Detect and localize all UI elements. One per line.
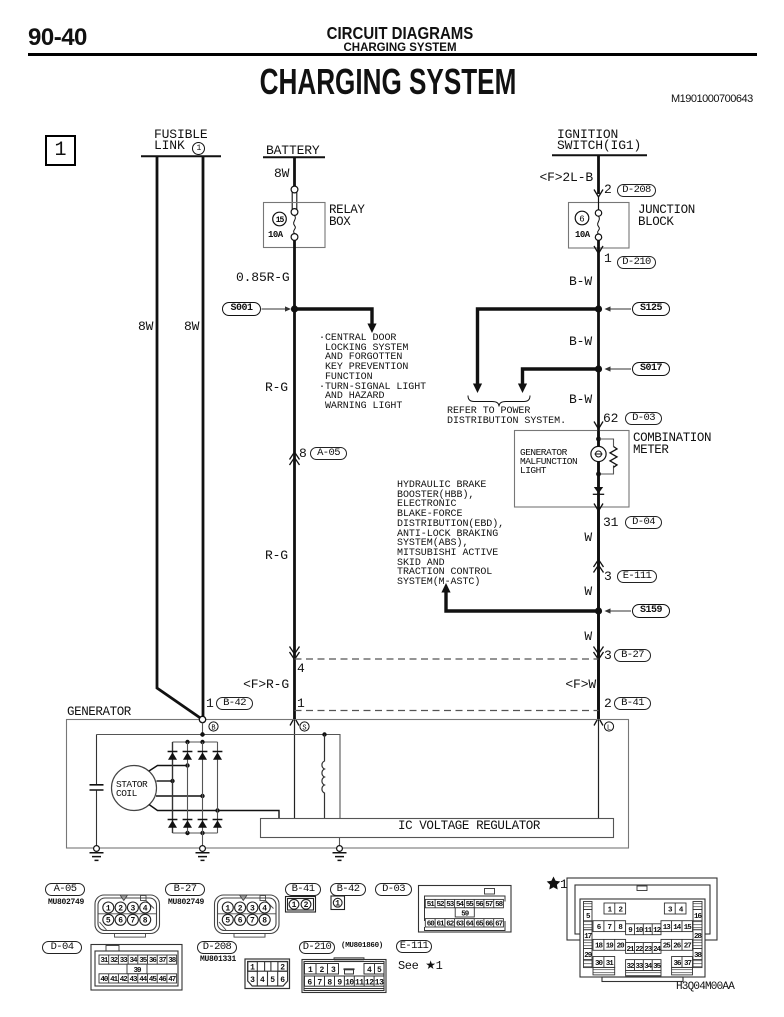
svg-text:4: 4 — [367, 966, 372, 975]
terminal arrow into generator pin1 — [290, 718, 299, 726]
generator malfunction lamp — [597, 430, 599, 447]
node S125 — [595, 305, 602, 312]
node field coil tap — [322, 732, 326, 736]
wire label (F)2L-B — [538, 171, 593, 184]
page header — [28, 26, 87, 50]
svg-text:6: 6 — [118, 917, 123, 926]
note hydraulic brake booster — [397, 481, 504, 588]
svg-text:3: 3 — [250, 976, 255, 985]
svg-text:4: 4 — [262, 904, 267, 913]
pin 8 A-05 — [299, 447, 307, 460]
terminal B circle — [199, 716, 205, 722]
break chevrons at E-111 — [594, 560, 604, 573]
dashed connector boundary upper — [295, 658, 599, 660]
pin 1 D-210 — [604, 252, 612, 265]
connector A-05 drawing — [95, 895, 160, 937]
wire label R-G 1 — [265, 381, 288, 394]
pin 1 generator — [297, 697, 305, 710]
rectifier column 1 — [172, 742, 174, 833]
capacitor — [96, 735, 98, 785]
wire battery 8W — [293, 157, 296, 186]
connector D-04 drawing — [91, 945, 182, 991]
resistor — [610, 447, 617, 468]
node S017 — [595, 365, 602, 372]
svg-text:12: 12 — [365, 978, 374, 987]
splice S125 — [632, 302, 670, 316]
IC voltage regulator box — [261, 819, 614, 838]
ignition switch underline — [552, 154, 647, 156]
wire L terminal to regulator — [598, 720, 600, 819]
svg-text:9: 9 — [337, 978, 342, 987]
svg-text:7: 7 — [608, 924, 612, 932]
resistor branch — [599, 439, 614, 474]
fusible link label — [154, 128, 208, 141]
field coil — [322, 735, 325, 819]
svg-text:6: 6 — [579, 214, 584, 224]
svg-text:13: 13 — [375, 978, 384, 987]
fusible link element at relay box — [291, 186, 298, 193]
svg-text:1: 1 — [250, 964, 255, 973]
node S001 — [291, 305, 298, 312]
svg-text:8: 8 — [143, 917, 148, 926]
battery label — [266, 144, 320, 157]
dashed connector boundary lower — [295, 710, 599, 712]
diode meter — [594, 487, 603, 494]
svg-text:7: 7 — [130, 917, 135, 926]
stator lead 2 — [157, 780, 173, 782]
junction block label — [638, 205, 695, 228]
wire label W 2 — [570, 585, 592, 598]
wire fusible-link right 8W — [202, 156, 205, 717]
pin 2 B-41 — [604, 697, 612, 710]
bottom row 2 connector refs — [42, 941, 82, 954]
branch S125 to power distribution arrow 1 — [478, 309, 599, 384]
generator label — [67, 707, 131, 719]
terminal letter B — [209, 722, 218, 731]
svg-text:6: 6 — [238, 917, 243, 926]
svg-text:L: L — [607, 725, 611, 733]
junction block box — [569, 203, 630, 249]
sheet number box 1 — [45, 135, 76, 166]
svg-text:1: 1 — [308, 966, 313, 975]
generator box — [67, 720, 629, 849]
break chevrons right at dashed line — [594, 647, 604, 660]
part number H3Q04M00AA — [676, 982, 734, 993]
svg-text:8: 8 — [262, 917, 267, 926]
svg-text:2: 2 — [238, 904, 243, 913]
connector B-42 drawing — [331, 896, 345, 910]
wire 0.85R-G battery to S001 — [293, 241, 296, 720]
splice S017 — [632, 362, 670, 376]
rectifier column 3 — [202, 742, 204, 833]
terminal letter S — [300, 722, 309, 731]
star1 pin grid — [584, 902, 703, 977]
svg-text:7: 7 — [317, 978, 322, 987]
arrow into junction block — [594, 190, 603, 198]
splice S001 — [222, 302, 261, 316]
wire labels 8W fusible — [138, 320, 153, 333]
svg-text:3: 3 — [250, 904, 255, 913]
svg-text:4: 4 — [143, 904, 148, 913]
wire label (F)R-G — [234, 678, 289, 691]
svg-text:47: 47 — [168, 976, 176, 984]
svg-text:3: 3 — [130, 904, 135, 913]
svg-text:17: 17 — [584, 933, 592, 941]
svg-text:8: 8 — [327, 978, 332, 987]
stator coil circle — [112, 766, 157, 811]
fuse value 10A relay — [268, 231, 283, 240]
svg-text:S: S — [302, 725, 306, 733]
pin 3 E-111 — [604, 570, 612, 583]
wire label (F)W — [541, 678, 596, 691]
svg-text:7: 7 — [250, 917, 255, 926]
stator lead 4 / neutral to regulator — [149, 805, 279, 819]
svg-text:10: 10 — [345, 978, 354, 987]
arrow into combination meter — [594, 422, 603, 430]
combination meter box — [515, 431, 630, 508]
circled 6 — [575, 211, 589, 225]
stator lead 1 — [149, 766, 188, 772]
terminal arrow into generator pin2 — [594, 718, 603, 726]
svg-text:6: 6 — [307, 978, 312, 987]
star1 connector housing — [567, 878, 717, 982]
node B bus — [200, 732, 204, 736]
combination meter label — [633, 433, 711, 456]
pin 1 B-42 — [206, 697, 214, 710]
rectifier column 2 — [187, 742, 189, 833]
wire label R-G 2 — [265, 549, 288, 562]
svg-text:B: B — [211, 725, 215, 733]
svg-text:1: 1 — [106, 904, 111, 913]
connector D-210 drawing — [302, 958, 386, 993]
connector D-208 drawing — [245, 959, 290, 989]
wire S terminal to regulator — [294, 720, 296, 819]
wire label W 3 — [570, 630, 592, 643]
bottom row 1 connector refs — [45, 883, 85, 896]
rectifier ground stub — [202, 833, 204, 846]
node S159 — [595, 607, 602, 614]
svg-text:4: 4 — [260, 976, 265, 985]
svg-text:27: 27 — [684, 943, 692, 951]
svg-text:3: 3 — [331, 966, 336, 975]
rectifier rails — [173, 741, 218, 743]
branch wire S001 to systems arrow — [295, 309, 373, 324]
svg-text:5: 5 — [377, 966, 382, 975]
svg-text:2: 2 — [118, 904, 123, 913]
note central door locking — [319, 334, 426, 412]
node meter top — [596, 437, 601, 442]
wire ignition B-W — [597, 155, 600, 194]
relay box — [264, 203, 326, 248]
wire label W 1 — [570, 531, 592, 544]
pin 4 — [297, 662, 305, 675]
wire below junction block — [597, 241, 600, 720]
arrow below junction block — [594, 246, 603, 254]
wire label B-W 3 — [560, 393, 592, 406]
ignition switch label — [557, 128, 618, 141]
svg-text:2: 2 — [280, 964, 285, 973]
svg-text:5: 5 — [270, 976, 275, 985]
internal bus from B terminal — [97, 723, 341, 819]
note refer to power distribution — [447, 407, 566, 426]
wire label B-W 1 — [560, 275, 592, 288]
fuse 6 — [595, 210, 601, 216]
svg-text:11: 11 — [355, 978, 364, 987]
break chevrons at dashed line left — [290, 647, 300, 660]
star1 label — [547, 877, 561, 890]
connector D-03 drawing — [419, 886, 512, 933]
connector B-41 drawing — [286, 894, 316, 913]
svg-text:5: 5 — [225, 917, 230, 926]
svg-text:1: 1 — [225, 904, 230, 913]
svg-text:1: 1 — [560, 877, 568, 892]
pin 2 D-208 — [604, 183, 612, 196]
branch S017 to power distribution arrow 2 — [523, 369, 599, 384]
splice S159 — [632, 604, 670, 618]
pin 3 B-27 — [604, 649, 612, 662]
fuse 15 squiggle — [294, 216, 296, 234]
svg-text:2: 2 — [304, 901, 309, 910]
stator coil label — [116, 780, 147, 798]
battery label underline — [263, 156, 325, 158]
rectifier column 4 — [217, 742, 219, 833]
ground terminal capacitor — [94, 846, 100, 852]
pin 62 D-03 — [603, 412, 618, 425]
arrow out of meter — [594, 504, 603, 512]
ground terminal regulator — [337, 846, 343, 852]
wire W meter to S159 — [597, 507, 600, 719]
svg-text:2: 2 — [320, 966, 325, 975]
svg-text:1: 1 — [335, 900, 340, 909]
svg-text:6: 6 — [280, 976, 285, 985]
stator lead 3 — [156, 795, 203, 797]
IC voltage regulator label — [398, 821, 540, 833]
svg-text:57: 57 — [485, 901, 493, 909]
connector B-27 drawing — [215, 895, 280, 937]
pin 31 D-04 — [603, 516, 618, 529]
see star1 note — [398, 959, 442, 972]
svg-text:37: 37 — [684, 960, 692, 968]
generator malfunction light label — [520, 448, 577, 475]
svg-text:1: 1 — [292, 901, 297, 910]
circled 15 — [273, 212, 287, 226]
underbrace refer to power — [468, 396, 530, 407]
wire label B-W 2 — [560, 335, 592, 348]
relay box label — [329, 205, 365, 228]
break chevrons at A-05 pin 8 — [290, 452, 300, 465]
fusible link label underline — [141, 155, 221, 157]
wire label 8W battery — [274, 167, 289, 180]
wire label 0.85R-G — [236, 271, 290, 284]
diodes bottom row — [168, 820, 223, 828]
node meter bottom — [596, 472, 601, 477]
diodes top row — [168, 752, 223, 760]
svg-text:37: 37 — [159, 957, 167, 965]
svg-text:5: 5 — [106, 917, 111, 926]
regulator ground stub — [339, 837, 341, 846]
fuse value 10A junction — [575, 231, 590, 240]
svg-text:15: 15 — [276, 216, 285, 225]
svg-text:67: 67 — [495, 920, 503, 928]
ground terminal rectifier — [200, 846, 206, 852]
wire fusible-link left 8W — [157, 156, 203, 720]
terminal letter L — [604, 722, 613, 731]
branch S159 to ABS systems arrow — [446, 591, 599, 611]
